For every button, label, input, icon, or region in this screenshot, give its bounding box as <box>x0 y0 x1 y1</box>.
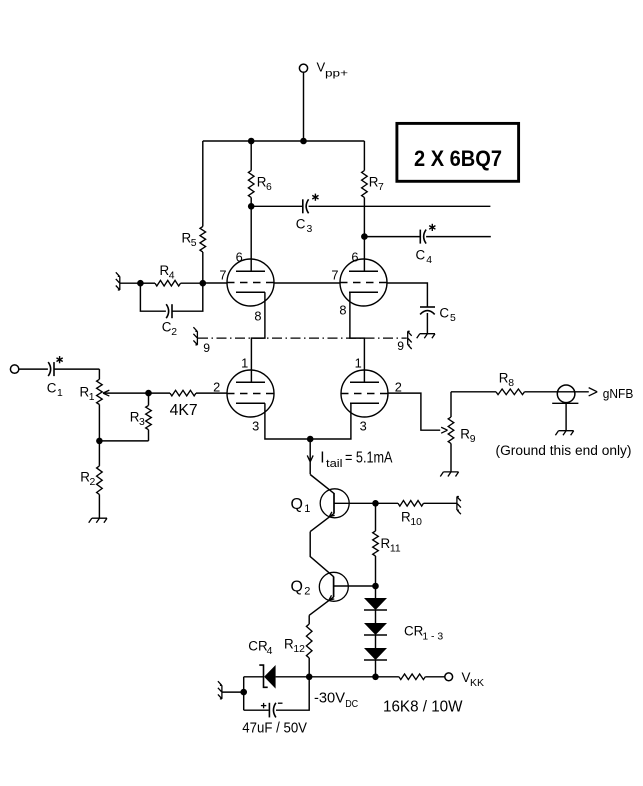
label C1 <box>47 381 63 400</box>
svg-text:-30V: -30V <box>314 691 345 707</box>
resistor R8 <box>496 389 525 395</box>
label Vpp+ <box>317 60 349 80</box>
plus mark <box>261 703 266 708</box>
wire <box>388 393 440 430</box>
ground <box>417 334 435 339</box>
wire <box>350 292 365 382</box>
shield pin 9 right <box>408 331 412 349</box>
wire <box>222 691 244 693</box>
label R3 <box>130 410 145 429</box>
wire <box>450 392 452 417</box>
tube triode V1b <box>227 370 274 417</box>
wire <box>310 475 334 494</box>
wire emitter Q1 <box>310 512 334 532</box>
wire <box>172 283 203 311</box>
polarity mark C4 <box>429 224 435 231</box>
pin 9 label <box>203 341 210 355</box>
pin 1 label <box>241 356 248 371</box>
svg-text:1: 1 <box>241 356 248 371</box>
node junction <box>145 390 152 397</box>
svg-text:2 X 6BQ7: 2 X 6BQ7 <box>414 146 502 171</box>
wire <box>450 444 452 472</box>
svg-text:3: 3 <box>307 224 313 235</box>
svg-text:tail: tail <box>326 458 343 470</box>
node junction <box>372 500 379 507</box>
wire <box>203 282 227 284</box>
label R10 <box>401 510 422 529</box>
node tail junction <box>307 436 314 443</box>
svg-text:4K7: 4K7 <box>170 402 198 419</box>
wire <box>376 502 399 504</box>
wire <box>375 660 377 678</box>
node junction <box>248 203 255 210</box>
svg-text:6: 6 <box>236 250 243 265</box>
label Q1 <box>291 496 311 515</box>
svg-text:2: 2 <box>171 327 177 338</box>
resistor R5 <box>200 227 206 253</box>
label R7 <box>369 175 384 194</box>
wire heater dash line <box>198 337 407 339</box>
resistor R11 <box>373 531 379 556</box>
ground <box>440 472 458 477</box>
polarity mark C3 <box>312 194 318 201</box>
wire <box>375 586 377 598</box>
wire <box>276 676 399 678</box>
transistor Q2 <box>319 572 348 601</box>
note ground this end only <box>496 443 632 458</box>
pin 8 label <box>339 303 346 318</box>
svg-text:1: 1 <box>304 503 310 515</box>
pin 2 label <box>213 380 220 395</box>
wire <box>244 709 269 711</box>
resistor R12 <box>306 624 312 658</box>
ground <box>555 431 573 436</box>
svg-text:8: 8 <box>339 303 346 318</box>
wire <box>375 610 377 623</box>
pin 1 label <box>355 356 362 371</box>
shield stub <box>116 272 120 290</box>
wire <box>251 292 265 382</box>
pin 8 label <box>254 309 261 324</box>
svg-text:3: 3 <box>360 419 367 434</box>
pin 6 label <box>351 250 358 265</box>
pin 2 label <box>395 380 402 395</box>
label 4K7 <box>170 402 198 419</box>
label R9 <box>460 427 475 446</box>
wire <box>451 391 496 393</box>
current arrow <box>307 455 313 461</box>
wire <box>363 141 365 171</box>
resistor R9 <box>448 417 454 444</box>
resistor 4K7 <box>170 390 196 396</box>
svg-text:47uF / 50V: 47uF / 50V <box>242 720 307 737</box>
svg-text:C: C <box>416 248 426 263</box>
capacitor 47uF <box>269 703 276 718</box>
pin 9 label <box>397 339 404 353</box>
svg-text:C: C <box>47 381 57 396</box>
svg-text:Q: Q <box>291 579 303 596</box>
svg-text:11: 11 <box>390 544 401 555</box>
zener diode CR4 <box>259 665 275 689</box>
svg-text:1: 1 <box>89 392 95 403</box>
wire <box>308 615 310 624</box>
svg-text:KK: KK <box>470 677 484 689</box>
svg-text:4: 4 <box>426 255 432 266</box>
resistor R3 <box>146 405 152 429</box>
capacitor C4 <box>420 230 426 244</box>
capacitor C2 <box>166 304 172 318</box>
label gNFB <box>603 387 634 401</box>
label C2 <box>162 320 178 339</box>
pin 7 label <box>331 268 338 283</box>
svg-text:(Ground this end only): (Ground this end only) <box>496 443 632 458</box>
wire <box>98 405 100 466</box>
wire <box>120 282 141 284</box>
resistor R1 <box>97 379 103 404</box>
node junction <box>96 438 103 445</box>
wire <box>309 439 311 474</box>
node junction <box>372 583 379 590</box>
label 47uF / 50V <box>242 720 307 737</box>
wire <box>525 391 589 393</box>
resistor R10 <box>398 501 424 507</box>
svg-text:8: 8 <box>254 309 261 324</box>
wire <box>276 677 309 710</box>
svg-text:7: 7 <box>378 182 384 193</box>
wire <box>265 403 351 439</box>
capacitor C5 <box>420 307 435 314</box>
svg-text:9: 9 <box>470 434 476 445</box>
label R12 <box>284 637 305 656</box>
svg-text:2: 2 <box>304 585 310 597</box>
terminal input <box>10 365 18 373</box>
resistor R7 <box>362 171 368 198</box>
terminal VKK <box>445 673 453 681</box>
tube triode V2a <box>340 259 387 306</box>
shield stub <box>457 497 461 515</box>
capacitor C1 <box>48 362 54 376</box>
wire <box>203 140 365 142</box>
wire <box>54 368 99 370</box>
wire <box>375 635 377 648</box>
wire <box>308 658 310 678</box>
tube triode V1a <box>227 259 274 306</box>
svg-text:8: 8 <box>508 378 514 389</box>
svg-text:C: C <box>162 320 172 335</box>
label R11 <box>381 536 401 555</box>
svg-text:5: 5 <box>450 313 456 324</box>
wire <box>310 532 333 577</box>
wire <box>181 282 203 284</box>
wire <box>250 198 252 272</box>
diode CR2 <box>364 623 387 635</box>
label 16K8 / 10W <box>383 699 463 716</box>
label R2 <box>80 470 95 489</box>
label VKK <box>462 670 485 689</box>
svg-text:3: 3 <box>139 417 145 428</box>
node junction <box>300 138 307 145</box>
svg-text:CR: CR <box>248 639 268 654</box>
ground <box>89 518 107 523</box>
wire emitter Q2 <box>309 595 334 615</box>
svg-text:1 - 3: 1 - 3 <box>422 632 443 643</box>
svg-text:16K8 / 10W: 16K8 / 10W <box>383 699 463 716</box>
svg-text:1: 1 <box>57 388 63 399</box>
wire <box>425 676 445 678</box>
svg-text:pp+: pp+ <box>325 67 348 79</box>
wire <box>202 252 204 283</box>
label R1 <box>80 385 95 404</box>
wiper arrow R1 <box>103 390 149 396</box>
wire bar under terminal <box>552 402 578 404</box>
svg-text:I: I <box>320 450 324 467</box>
svg-text:2: 2 <box>395 380 402 395</box>
svg-text:1: 1 <box>355 356 362 371</box>
wire <box>149 392 171 394</box>
shield stub <box>218 681 222 699</box>
svg-text:3: 3 <box>252 419 259 434</box>
wire <box>148 393 150 405</box>
label box 2 X 6BQ7 <box>397 123 519 181</box>
shield pin 9 left <box>193 327 197 345</box>
label R6 <box>257 175 272 194</box>
svg-text:9: 9 <box>203 341 210 355</box>
svg-text:C: C <box>296 217 306 232</box>
capacitor C3 <box>303 199 309 213</box>
svg-text:4: 4 <box>169 271 175 282</box>
node junction <box>200 280 207 287</box>
node junction <box>306 674 313 681</box>
label -30VDC <box>314 691 359 710</box>
svg-text:gNFB: gNFB <box>603 387 634 401</box>
terminal Vpp+ <box>299 64 307 72</box>
diode CR1 <box>364 598 387 610</box>
svg-text:10: 10 <box>410 517 422 528</box>
wire <box>309 205 491 207</box>
svg-text:6: 6 <box>351 250 358 265</box>
svg-text:5: 5 <box>191 238 197 249</box>
arrow gNFB <box>589 388 598 396</box>
pin 6 label <box>236 250 243 265</box>
node junction <box>372 674 379 681</box>
wire <box>363 198 365 272</box>
tube triode V2b <box>341 370 388 417</box>
wire <box>426 236 491 238</box>
resistor R6 <box>248 171 254 198</box>
label Itail <box>320 450 393 470</box>
wire <box>375 556 377 586</box>
transistor Q1 <box>320 489 349 518</box>
resistor 16K8 <box>399 674 425 680</box>
wire <box>99 440 148 442</box>
node junction <box>361 233 368 240</box>
svg-text:= 5.1mA: = 5.1mA <box>345 450 393 467</box>
wire <box>244 676 264 678</box>
wire <box>303 72 305 141</box>
wiper arrow R9 <box>441 427 447 433</box>
svg-text:CR: CR <box>404 624 424 639</box>
wire <box>98 369 100 379</box>
wire <box>565 403 567 430</box>
svg-text:DC: DC <box>345 698 358 710</box>
wire <box>426 313 428 334</box>
svg-text:7: 7 <box>219 268 226 283</box>
wire base Q2 <box>334 585 376 587</box>
label CR1-3 <box>404 624 443 643</box>
label C3 <box>296 217 313 236</box>
wire <box>424 502 457 504</box>
node junction <box>240 689 247 696</box>
terminal gNFB <box>557 385 575 403</box>
resistor R4 <box>155 280 181 286</box>
svg-text:2: 2 <box>213 380 220 395</box>
label C4 <box>416 248 433 267</box>
node junction <box>248 138 255 145</box>
pin 3 label <box>360 419 367 434</box>
polarity mark C1 <box>56 356 62 363</box>
svg-text:Q: Q <box>291 496 303 513</box>
node junction <box>137 280 144 287</box>
wire <box>243 677 245 710</box>
wire <box>375 503 377 531</box>
label R8 <box>499 371 514 390</box>
wire <box>250 141 252 171</box>
svg-text:C: C <box>439 306 449 321</box>
label R4 <box>160 263 175 282</box>
diode CR3 <box>364 648 387 660</box>
pin 3 label <box>252 419 259 434</box>
svg-text:12: 12 <box>293 644 305 655</box>
label CR4 <box>248 639 272 658</box>
pin 7 label <box>219 268 226 283</box>
label C5 <box>439 306 456 325</box>
wire <box>140 283 166 311</box>
minus mark <box>278 702 283 704</box>
wire <box>98 495 100 519</box>
svg-text:7: 7 <box>331 268 338 283</box>
wire <box>202 141 204 227</box>
svg-text:6: 6 <box>266 182 272 193</box>
label Q2 <box>291 579 311 598</box>
wire <box>251 205 302 207</box>
svg-text:9: 9 <box>397 339 404 353</box>
wire <box>148 430 150 441</box>
wire <box>274 282 340 284</box>
wire <box>364 236 419 238</box>
label R5 <box>182 231 197 250</box>
wire <box>196 392 227 394</box>
wire <box>387 283 427 307</box>
svg-text:2: 2 <box>90 477 96 488</box>
resistor R2 <box>97 466 103 495</box>
svg-text:4: 4 <box>267 646 273 657</box>
wire <box>140 282 155 284</box>
wire base Q1 <box>334 502 376 504</box>
wire <box>19 368 48 370</box>
